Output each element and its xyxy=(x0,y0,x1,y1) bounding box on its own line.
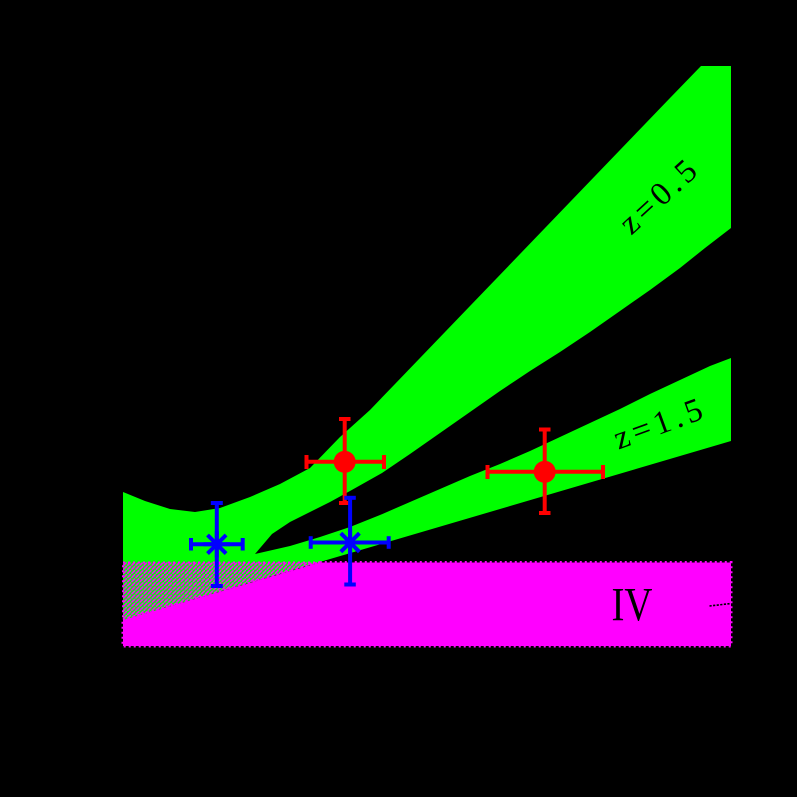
blue point 2 error bars xyxy=(310,497,389,585)
red point 1 error bars xyxy=(306,418,385,503)
black dashed segment on magenta xyxy=(710,604,732,607)
hatched overlap region xyxy=(123,563,320,621)
magenta region IV xyxy=(123,563,731,647)
blue point 1 error bars xyxy=(191,503,244,587)
green band region (z=0.5 and z=1.5 bands merged at left) xyxy=(123,66,731,620)
red point 1 xyxy=(334,451,356,473)
svg-text:IV: IV xyxy=(612,579,653,632)
red point 2 error bars xyxy=(487,429,604,514)
red point 2 xyxy=(534,461,556,483)
blue asterisk 2 xyxy=(337,529,363,555)
blue asterisk 1 xyxy=(204,531,230,557)
